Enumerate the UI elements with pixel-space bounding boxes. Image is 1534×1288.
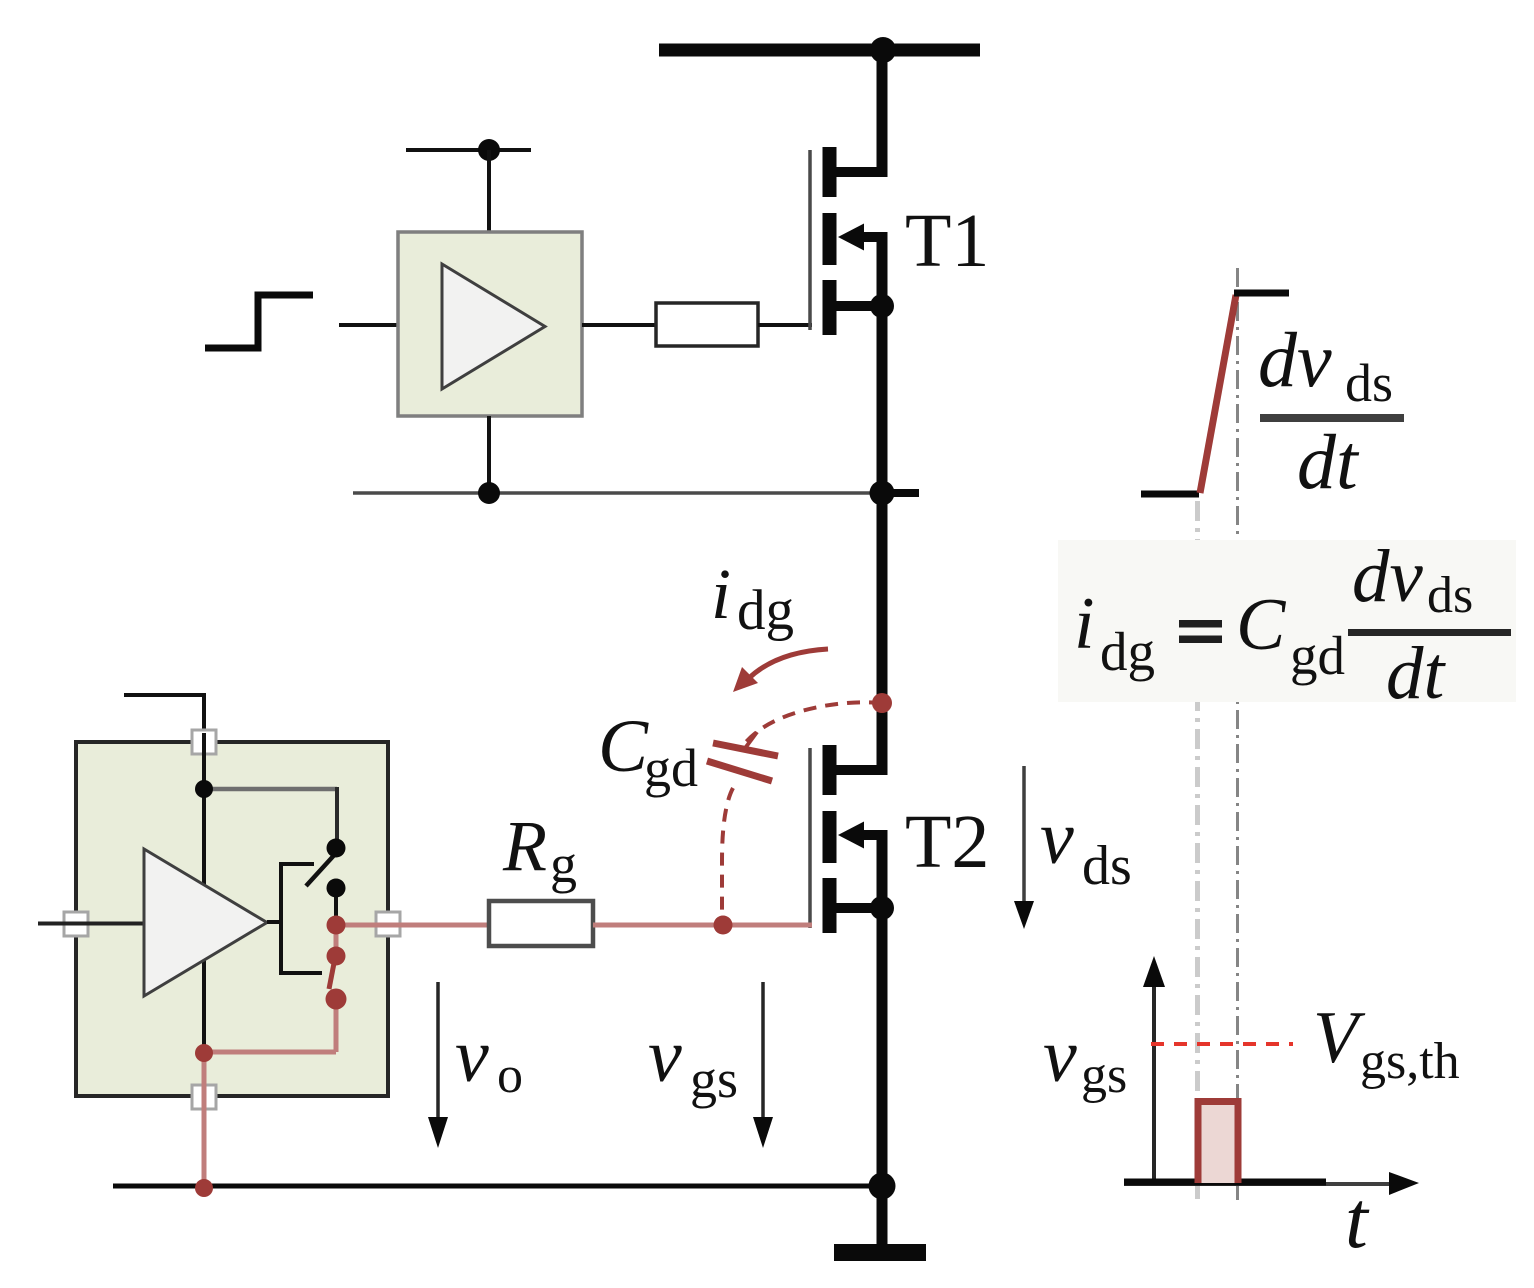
resistor R_g	[489, 901, 593, 946]
gate driver U2 box	[76, 742, 388, 1096]
port square right U2	[376, 912, 400, 936]
wire switch to output node	[334, 888, 338, 924]
v_gs graph y axis	[1152, 984, 1156, 1185]
step input source	[205, 295, 313, 348]
junction dot top	[870, 37, 896, 63]
dash-dot guide line right	[1236, 268, 1239, 1200]
capacitor C_gd plates	[713, 743, 778, 756]
junction dot U2 internal	[195, 780, 213, 798]
wire input driver1	[339, 323, 398, 327]
svg-text:dv: dv	[1258, 316, 1332, 403]
svg-text:ds: ds	[1082, 835, 1132, 897]
wire amp output	[267, 920, 281, 924]
svg-text:v: v	[455, 1014, 489, 1098]
pulldown contact dot lower	[326, 989, 347, 1010]
svg-text:t: t	[1345, 1174, 1370, 1265]
resistor R1 (T1 gate)	[656, 303, 758, 346]
wire U2 internal supply	[202, 733, 206, 1046]
svg-text:gs: gs	[690, 1049, 738, 1109]
mid node stub	[882, 489, 919, 497]
v_ds arrow	[1022, 766, 1026, 916]
wire U2 top stub	[124, 693, 206, 740]
wire salmon to pulldown	[334, 925, 339, 953]
svg-text:v: v	[648, 1014, 682, 1098]
svg-text:gd: gd	[644, 738, 698, 798]
wire R1 to T1 gate	[758, 323, 812, 327]
node dot C_gd tap on bus	[872, 693, 892, 713]
wire salmon U2 return to rail	[202, 1053, 207, 1188]
junction dot driver1 return	[478, 482, 500, 504]
svg-text:dg: dg	[737, 579, 794, 642]
transistor T1	[810, 147, 887, 335]
svg-text:gd: gd	[1290, 625, 1345, 686]
buffer amp U2 triangle	[144, 849, 267, 996]
buffer amp U1 triangle	[442, 264, 545, 389]
capacitor C_gd dashed lead upper	[745, 702, 882, 743]
wire bus drain T1	[877, 50, 888, 177]
svg-text:ds: ds	[1345, 353, 1393, 413]
svg-text:T2: T2	[905, 800, 989, 884]
v_gs graph x axis	[1124, 1182, 1392, 1186]
wire driver1 supply	[487, 150, 491, 232]
svg-text:v: v	[1040, 796, 1074, 880]
svg-text:gs: gs	[1081, 1047, 1127, 1104]
transistor T2	[810, 745, 887, 933]
svg-text:i: i	[711, 554, 731, 634]
wire switch feed	[335, 787, 339, 844]
wire bus lower	[877, 830, 888, 1244]
driver1 supply rail	[406, 148, 531, 152]
dash-dot guide line left	[1195, 501, 1200, 1199]
pulldown contact dot upper	[327, 947, 346, 966]
wire driver1 return	[487, 416, 491, 493]
ground	[834, 1244, 926, 1261]
node dot T2 gate	[714, 916, 733, 935]
bracket totem drive	[281, 864, 322, 973]
svg-text:v: v	[1043, 1014, 1077, 1098]
DC+ rail	[659, 44, 980, 57]
DC- rail	[113, 1184, 882, 1189]
svg-text:g: g	[550, 834, 577, 894]
port square bottom U2	[192, 1085, 216, 1109]
v_gs arrow	[761, 982, 765, 1120]
switch contact dot upper	[327, 839, 346, 858]
port square top U2	[192, 730, 216, 754]
gate driver U1 box	[398, 232, 582, 416]
svg-text:dt: dt	[1386, 632, 1447, 715]
dv_ds/dt waveform slope	[1200, 295, 1236, 493]
svg-text:ds: ds	[1427, 567, 1473, 624]
dv_ds/dt waveform low segment	[1141, 491, 1199, 498]
node dot U2 return	[195, 1044, 213, 1062]
i_dg current arc arrow	[748, 649, 828, 679]
switch lever upper	[306, 852, 337, 886]
svg-text:C: C	[1236, 584, 1287, 666]
wire U2 input	[38, 922, 143, 926]
node dot gate drive output	[327, 916, 346, 935]
mid node rail	[353, 491, 882, 495]
v_gs zero trace	[1124, 1179, 1326, 1186]
svg-text:V: V	[1313, 997, 1366, 1079]
wire U2 internal to switch	[204, 787, 337, 792]
v_gs pulse	[1202, 1104, 1235, 1183]
wire salmon U2 output to R_g	[336, 923, 490, 928]
node dot return on rail	[195, 1179, 213, 1197]
svg-text:dt: dt	[1297, 418, 1360, 505]
junction dot mid node	[870, 481, 895, 506]
svg-text:dg: dg	[1100, 621, 1155, 682]
wire salmon pulldown down	[334, 999, 339, 1052]
svg-text:dv: dv	[1352, 535, 1424, 618]
svg-text:C: C	[598, 705, 649, 788]
capacitor C_gd dashed lead lower	[722, 788, 733, 925]
junction dot T1 source	[870, 294, 894, 318]
svg-text:R: R	[502, 806, 547, 886]
svg-text:i: i	[1074, 583, 1095, 665]
dv_ds/dt waveform high segment	[1234, 290, 1289, 297]
port square left U2	[64, 912, 88, 936]
v_o arrow	[436, 982, 440, 1120]
wire bus mid	[877, 232, 888, 775]
wire salmon pulldown across	[204, 1050, 336, 1055]
svg-text:o: o	[497, 1047, 523, 1104]
svg-text:gs,th: gs,th	[1360, 1033, 1460, 1090]
wire salmon R_g to T2 gate	[593, 923, 812, 928]
switch contact dot lower	[327, 879, 346, 898]
wire driver1 output	[582, 323, 656, 327]
capacitor C_gd inter-plate dash	[743, 732, 757, 751]
junction dot driver1 supply	[478, 139, 500, 161]
svg-text:T1: T1	[905, 199, 989, 283]
junction dot T2 source	[870, 896, 894, 920]
V_gs,th threshold dashed line	[1151, 1042, 1293, 1046]
junction dot bottom	[869, 1173, 896, 1200]
pulldown switch lever	[329, 958, 335, 989]
formula background	[1058, 540, 1516, 702]
